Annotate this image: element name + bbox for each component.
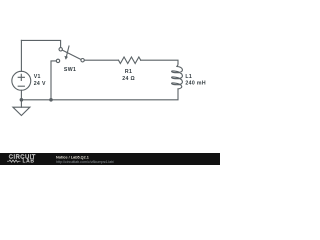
svg-text:SW1: SW1 (64, 67, 76, 73)
junction dot switch branch (49, 98, 53, 102)
inductor L1 (172, 64, 183, 89)
svg-text:L1: L1 (185, 74, 192, 80)
wire resistor to L1 (141, 60, 178, 63)
svg-text:Notice / Lab5.Q2.1: Notice / Lab5.Q2.1 (56, 156, 89, 160)
wire throw2 to bottom rail (51, 61, 56, 100)
junction dot left (20, 98, 24, 102)
wire common to resistor (84, 59, 118, 61)
switch arrow (66, 46, 69, 59)
svg-text:24 Ω: 24 Ω (122, 76, 135, 82)
svg-text:R1: R1 (125, 69, 132, 75)
ground (20, 100, 22, 107)
watermark bar (0, 153, 220, 165)
svg-text:http://circuitlab.com/c/v8kump: http://circuitlab.com/c/v8kumps4-lab/ (56, 160, 114, 164)
wire top rail (21, 40, 60, 47)
svg-text:240 mH: 240 mH (185, 81, 206, 87)
voltage source V1 (12, 71, 31, 90)
svg-text:24 V: 24 V (34, 81, 46, 87)
wire V1 top to rail (20, 40, 22, 71)
wire V1 bottom (20, 90, 22, 100)
logo zigzag (7, 160, 21, 162)
switch blade (62, 50, 81, 59)
svg-text:V1: V1 (34, 74, 41, 80)
wire L1 to bottom rail (21, 89, 178, 100)
resistor R1 (119, 57, 141, 64)
switch SW1 (59, 48, 62, 51)
svg-text:LAB: LAB (23, 159, 35, 165)
labels (34, 67, 206, 87)
logo CIRCUIT (7, 155, 114, 165)
